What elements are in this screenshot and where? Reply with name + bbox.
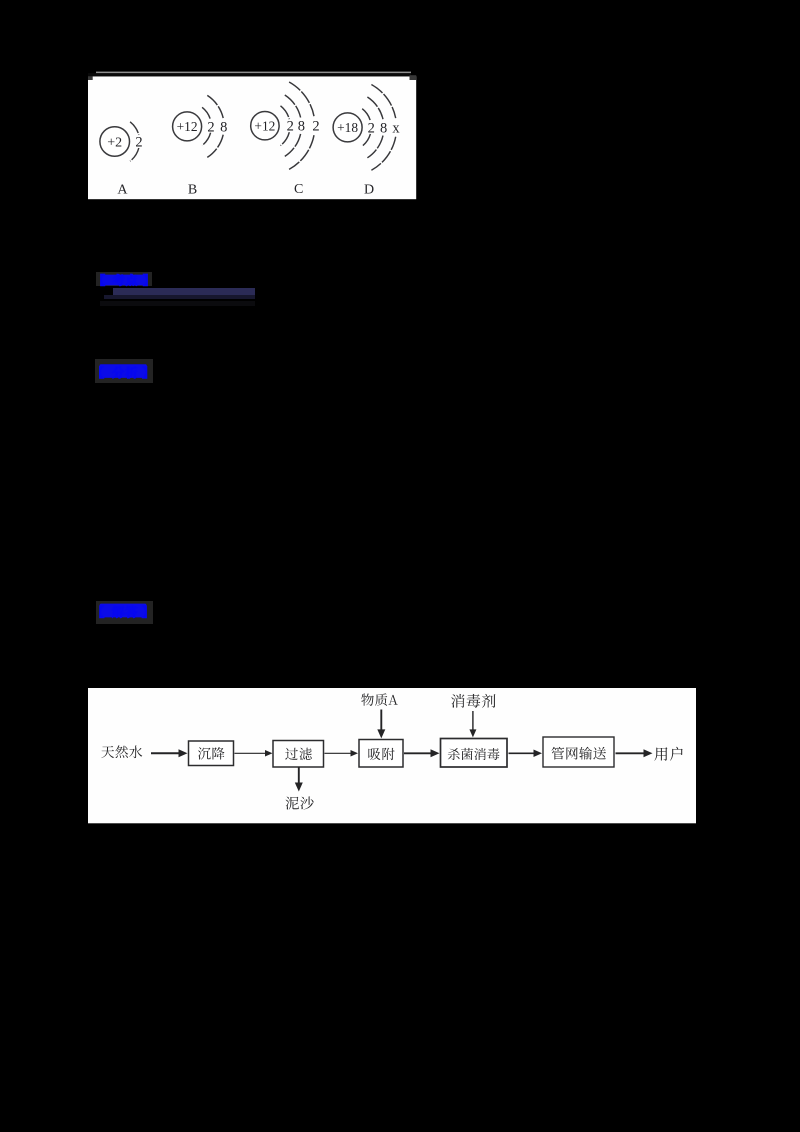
selection handle top-left — [88, 76, 93, 80]
hyperlink text line (dark navy) — [113, 288, 256, 296]
blue section label 2 — [96, 360, 158, 382]
svg-text:2: 2 — [287, 119, 294, 135]
faint next text row — [100, 301, 255, 306]
selection border top bar — [88, 73, 411, 76]
label 泥沙 (sediment) — [286, 797, 314, 810]
arrow 消毒剂 down to 杀菌消毒 — [469, 711, 476, 737]
process box 过滤 (filtration) — [273, 741, 324, 768]
arrow 物质A down to 吸附 — [377, 710, 385, 739]
atom B: nucleus +12 with 2 electron shells (2 8) — [173, 95, 228, 197]
atom D: nucleus +18 with 3 electron shells (2 8 x) — [333, 85, 400, 198]
svg-text:8: 8 — [380, 120, 387, 136]
flow chart white background — [88, 688, 696, 823]
svg-text:+12: +12 — [177, 119, 198, 134]
svg-text:+12: +12 — [254, 119, 275, 134]
svg-text:A: A — [117, 183, 128, 198]
process box 沉降 (sedimentation) — [189, 741, 234, 766]
atom A: nucleus +2 with 1 electron shell (2) — [100, 122, 143, 198]
svg-text:B: B — [188, 183, 197, 198]
arrow 杀菌消毒 to 管网输送 — [509, 750, 543, 758]
svg-text:x: x — [392, 120, 400, 136]
arrow 过滤 down to 泥沙 — [295, 767, 303, 791]
atomic structure figure panel — [88, 70, 417, 200]
atom C: nucleus +12 with 3 electron shells (2 8 2) — [251, 82, 320, 197]
figure white background — [88, 76, 416, 199]
arrow 过滤 to 吸附 — [325, 750, 359, 757]
svg-text:2: 2 — [312, 119, 319, 135]
svg-text:2: 2 — [368, 120, 375, 136]
svg-text:2: 2 — [207, 119, 214, 135]
arrow 管网输送 to 用户 — [616, 749, 653, 757]
process box 杀菌消毒 (sterilisation) — [441, 739, 508, 768]
highlight box behind blue label 1 — [96, 272, 152, 287]
process box 吸附 (adsorption) — [359, 740, 403, 768]
label 消毒剂 (disinfectant) — [451, 694, 495, 708]
svg-text:D: D — [364, 183, 374, 198]
svg-text:8: 8 — [298, 119, 305, 135]
arrow 吸附 to 杀菌消毒 — [404, 749, 440, 757]
svg-text:8: 8 — [220, 119, 227, 135]
svg-text:+2: +2 — [107, 135, 122, 150]
blue section label 1 — [96, 270, 156, 290]
label 用户 (users) — [654, 747, 682, 761]
arrow 天然水 to 沉降 — [151, 749, 188, 757]
svg-text:+18: +18 — [337, 120, 358, 135]
arrow 沉降 to 过滤 — [235, 750, 273, 757]
selection handle top-right — [410, 75, 417, 80]
blue section label 3 — [96, 600, 158, 622]
label 物质A (substance A) — [361, 693, 398, 706]
highlight box behind blue label 3 — [96, 601, 153, 624]
highlight box behind blue label 2 — [95, 359, 153, 383]
water purification flow chart panel — [88, 688, 696, 824]
label 天然水 (natural water) — [101, 745, 142, 758]
svg-text:2: 2 — [135, 135, 142, 151]
process box 管网输送 (pipe network delivery) — [543, 737, 614, 767]
svg-text:C: C — [294, 182, 303, 197]
